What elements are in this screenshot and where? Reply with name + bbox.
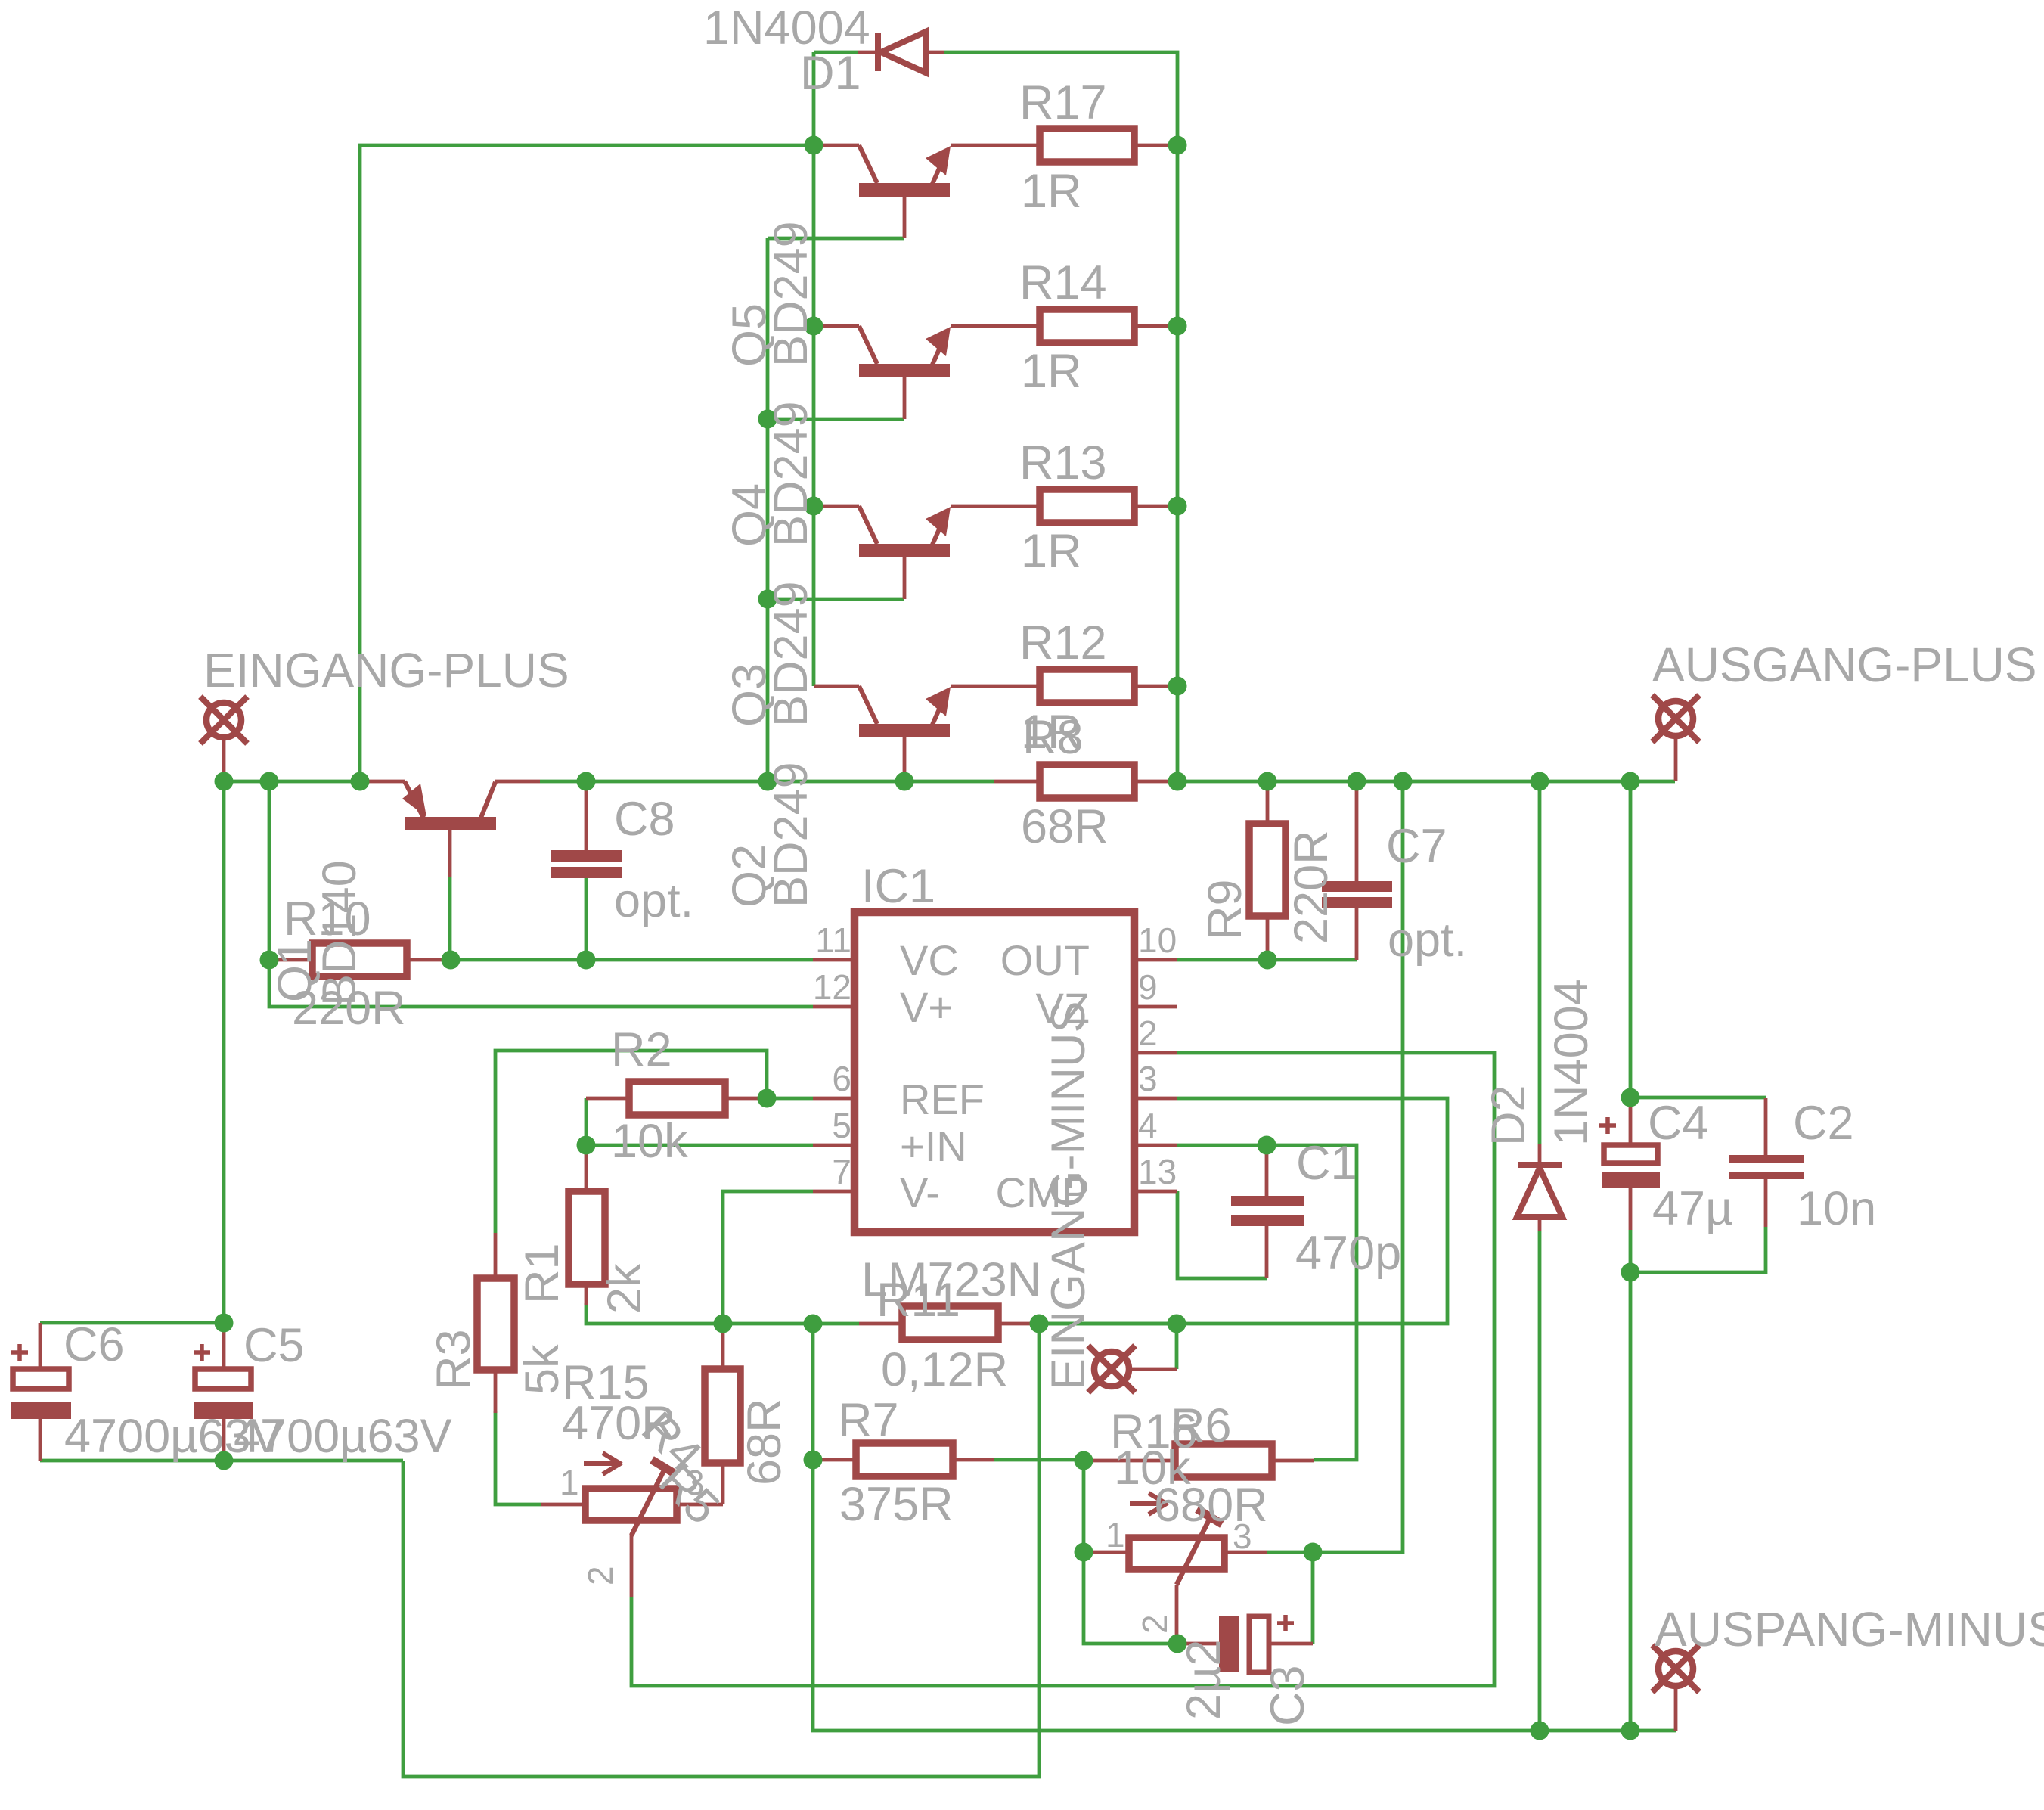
wire pot R16 pin1 down to C3 left [1084, 1552, 1177, 1644]
svg-text:+IN: +IN [900, 1122, 967, 1170]
resistor R9 220R [1249, 781, 1286, 960]
label C2 10n [1793, 1097, 1876, 1235]
svg-text:68R: 68R [738, 1398, 791, 1486]
svg-text:BD249: BD249 [765, 401, 817, 547]
wire C4 bottom node down to minus bus [1629, 1272, 1633, 1731]
svg-text:3: 3 [1233, 1517, 1252, 1556]
wire pot R16 pin3 to C3 right node [1267, 1551, 1313, 1554]
wire C8 bottom segment [585, 877, 588, 960]
wire D2 anode down to minus bus [1538, 1231, 1542, 1731]
label C7 opt [1386, 820, 1467, 967]
label R17 1R [1019, 76, 1107, 218]
wire C6 top to C5 top [40, 1321, 224, 1325]
label AUSGANG-PLUS [1652, 638, 2037, 692]
svg-text:VZ: VZ [1035, 984, 1090, 1032]
wire +IN node to pin 5 [586, 1144, 813, 1147]
transistor Q5 BD249 NPN [814, 145, 1040, 238]
resistor R13 1R emitter [1040, 489, 1177, 523]
wire R7 left node up to V- net [811, 1324, 815, 1460]
wire C2 bottom to C4 bottom [1630, 1227, 1766, 1272]
label C5 value [234, 1319, 452, 1463]
resistor R3 5k [477, 1233, 514, 1413]
svg-text:470p: 470p [1295, 1227, 1401, 1280]
wire R10 left down to V+ pin 12 [269, 960, 813, 1007]
svg-text:1: 1 [1106, 1515, 1125, 1554]
svg-text:3: 3 [685, 1463, 705, 1502]
wire C3 right node down [1311, 1552, 1315, 1644]
wire pin 3 to R11 right net [1044, 1098, 1447, 1324]
label C6 value [64, 1318, 283, 1463]
svg-text:4: 4 [1138, 1106, 1158, 1145]
transistor Q1 BD140 PNP driver [360, 781, 540, 877]
label C3 2u2 [1177, 1640, 1314, 1726]
label Q5 BD249 [723, 221, 817, 367]
wire V- net R1 bottom to R11 left [586, 1303, 859, 1324]
svg-text:C4: C4 [1648, 1097, 1709, 1150]
wire D1 anode to emitter bus top [944, 52, 1177, 781]
svg-text:375R: 375R [839, 1478, 954, 1531]
capacitor C8 opt [551, 787, 622, 878]
svg-text:9: 9 [1138, 967, 1158, 1007]
capacitor C3 2u2 electrolytic [1177, 1615, 1313, 1672]
svg-text:BD249: BD249 [765, 581, 817, 727]
label R15 470R [562, 1356, 676, 1450]
diode D2 1N4004 [1517, 1144, 1562, 1231]
svg-text:12: 12 [813, 967, 851, 1007]
wire pin 7 V- to 68R top [723, 1191, 813, 1324]
wire rail R8 right to AUSGANG-PLUS [1177, 780, 1675, 784]
svg-text:R13: R13 [1019, 436, 1107, 489]
wire C5/C6 minus bus [40, 1459, 403, 1463]
capacitor C2 10n [1729, 1098, 1804, 1227]
wire input rail EINGANG-PLUS to Q1 emitter [224, 780, 360, 784]
label R13 1R [1019, 436, 1107, 578]
wire R3 bottom to pot R4 pin1 [495, 1411, 541, 1504]
resistor R12 1R emitter [1040, 669, 1177, 703]
label R11 0,12R [876, 1274, 1008, 1396]
wire rail down to C4 top [1629, 781, 1633, 1097]
label R7 375R [838, 1394, 954, 1531]
svg-text:C7: C7 [1386, 820, 1447, 873]
label C8 opt [614, 793, 693, 927]
capacitor C4 47u electrolytic [1599, 1097, 1660, 1230]
wire R3 top to REF node [495, 1051, 767, 1233]
svg-text:R8: R8 [1022, 711, 1084, 764]
wire R7 right to R6 left [994, 1458, 1084, 1462]
terminal EINGANG-MINUS [1088, 1346, 1177, 1392]
resistor R2 10k [586, 1082, 767, 1115]
label pot R4 pin numbers [560, 1463, 705, 1585]
wire pin 4 to C1 top and down to R6 right [1177, 1145, 1357, 1460]
svg-text:2: 2 [581, 1566, 620, 1585]
svg-text:IC1: IC1 [861, 860, 935, 913]
wire rail down to D2 [1538, 781, 1542, 1144]
label R9 220R [1199, 830, 1338, 944]
svg-text:R10: R10 [284, 893, 371, 945]
wire Q1 base node to IC pin 11 VC [451, 958, 813, 962]
label IC1 pin numbers [813, 921, 1177, 1191]
resistor R10 220R base [269, 943, 451, 976]
svg-text:2µ2: 2µ2 [1177, 1640, 1230, 1720]
svg-text:R1: R1 [516, 1243, 569, 1304]
svg-text:1R: 1R [1021, 165, 1082, 218]
label R16 R6 10k 680R [1110, 1399, 1268, 1532]
label C1 470p [1295, 1137, 1401, 1280]
resistor R17 1R emitter [1040, 129, 1177, 162]
resistor R5 68R [705, 1324, 740, 1504]
label R10 220R [284, 893, 406, 1035]
label R12 1R R8 [1019, 616, 1107, 764]
svg-text:0,12R: 0,12R [881, 1343, 1008, 1396]
wire rail to R10 left [268, 781, 271, 960]
svg-text:13: 13 [1138, 1152, 1177, 1191]
wire pin 13 CMP to C1 bottom [1177, 1191, 1267, 1278]
svg-text:R7: R7 [838, 1394, 899, 1447]
svg-text:C6: C6 [64, 1318, 125, 1371]
wire ground loop C5 bus to R11 right node [403, 1324, 1039, 1777]
svg-text:R2: R2 [611, 1023, 672, 1076]
capacitor C6 4700u 63V electrolytic [11, 1323, 71, 1461]
wire OUT pin10 to R9 bottom and C7 bottom [1177, 958, 1357, 962]
svg-text:R11: R11 [876, 1274, 960, 1327]
terminal EINGANG-PLUS [200, 697, 247, 781]
label R1 2k [516, 1243, 651, 1314]
svg-text:10k: 10k [611, 1115, 688, 1168]
label LM723N [861, 1253, 1041, 1306]
wire REF node to pin 6 [767, 1097, 813, 1101]
label R4 diagonal [631, 1402, 712, 1482]
svg-text:5: 5 [832, 1106, 851, 1145]
wire EINGANG-MINUS terminal up [1175, 1324, 1179, 1369]
svg-text:R9: R9 [1199, 879, 1252, 940]
capacitor C1 470p [1231, 1145, 1304, 1278]
wire R11 right to EINGANG-MINUS node [1039, 1322, 1180, 1326]
wire rail down to pot R16 pin3 node [1313, 781, 1403, 1552]
svg-text:1: 1 [560, 1463, 579, 1502]
svg-text:opt.: opt. [614, 874, 693, 927]
svg-text:5k: 5k [516, 1344, 569, 1395]
label 1N4004 D1 [703, 2, 870, 100]
svg-text:VC: VC [900, 936, 959, 984]
svg-text:D2: D2 [1482, 1085, 1535, 1146]
label 68R of R8 [1021, 800, 1109, 853]
wire R2 left down to +IN node [585, 1098, 588, 1145]
label EINGANG-PLUS [203, 643, 569, 697]
svg-text:BD249: BD249 [765, 762, 817, 908]
wire collector bus Q5-Q3 to rail [766, 238, 770, 781]
svg-text:R14: R14 [1019, 256, 1107, 309]
wire rail Q1 collector to R8 left [540, 780, 994, 784]
label Q2 BD249 [723, 762, 817, 908]
svg-text:AUSPANG-MINUS: AUSPANG-MINUS [1655, 1602, 2044, 1656]
wire Q5 collector [768, 237, 904, 241]
transistor Q3 BD249 NPN [814, 506, 1040, 599]
label R5 diagonal [649, 1454, 729, 1534]
label IC1 [861, 860, 935, 913]
svg-text:11: 11 [815, 921, 851, 960]
svg-text:2: 2 [1135, 1614, 1174, 1634]
svg-text:BD249: BD249 [765, 221, 817, 367]
svg-text:V+: V+ [900, 983, 953, 1031]
svg-text:47µ: 47µ [1652, 1182, 1732, 1235]
wire base bus vertical [812, 52, 816, 686]
svg-text:10: 10 [1138, 921, 1177, 960]
diode D1 1N4004 [858, 32, 944, 73]
wire C4 top to C2 top [1630, 1096, 1766, 1100]
resistor R11 0.12R shunt [859, 1306, 1039, 1340]
label EINGANG-MINUS vertical [1042, 1001, 1095, 1390]
label R14 1R [1019, 256, 1107, 398]
svg-text:CMP: CMP [996, 1169, 1090, 1216]
svg-text:10n: 10n [1797, 1182, 1876, 1235]
svg-text:220R: 220R [1285, 830, 1338, 944]
svg-text:D1: D1 [800, 47, 861, 100]
svg-text:C1: C1 [1296, 1137, 1357, 1190]
label Q3 BD249 [723, 581, 817, 727]
svg-text:1N4004: 1N4004 [1545, 979, 1598, 1146]
wire pot R4 wiper net to IC pin 2 [631, 1053, 1494, 1686]
transistor Q4 BD249 NPN [814, 326, 1040, 419]
svg-text:1R: 1R [1021, 345, 1082, 398]
wire R6 left down to pot R16 pin1 [1082, 1461, 1086, 1552]
capacitor C7 opt [1322, 781, 1392, 960]
op-amp U1 IC1 LM723N box [855, 912, 1134, 1232]
svg-text:AUSGANG-PLUS: AUSGANG-PLUS [1652, 638, 2037, 692]
svg-text:opt.: opt. [1388, 914, 1467, 967]
label 68R of R5 [738, 1398, 791, 1486]
wire C4 bottom segment [1629, 1230, 1633, 1272]
svg-text:2k: 2k [598, 1263, 651, 1314]
transistor Q2 BD249 NPN [814, 686, 1040, 781]
svg-text:REF: REF [900, 1076, 985, 1123]
IC1 pin stubs [813, 960, 1177, 1191]
label R3 5k [427, 1329, 569, 1395]
svg-text:C5: C5 [243, 1319, 305, 1372]
svg-text:3: 3 [1138, 1059, 1158, 1098]
svg-text:68R: 68R [1021, 800, 1109, 853]
svg-text:1R: 1R [1021, 525, 1082, 578]
label D2 1N4004 [1482, 979, 1598, 1146]
svg-text:2: 2 [1138, 1014, 1158, 1053]
wire D1 cathode to base bus [814, 51, 858, 54]
label R2 10k [611, 1023, 688, 1168]
wire R7 left node down to minus bus [813, 1460, 1676, 1731]
wire Q3 collector [768, 598, 904, 601]
svg-text:7: 7 [832, 1152, 851, 1191]
svg-text:C8: C8 [614, 793, 675, 846]
svg-text:EINGANG-PLUS: EINGANG-PLUS [203, 643, 569, 697]
resistor R8 68R in rail [994, 765, 1177, 798]
wire Q1 base vertical [448, 877, 452, 960]
svg-text:6: 6 [832, 1059, 851, 1098]
label Q4 BD249 [723, 401, 817, 547]
svg-text:V-: V- [900, 1169, 940, 1216]
label pot R16 pin numbers [1106, 1515, 1252, 1634]
resistor R6 10k [1084, 1444, 1314, 1477]
label AUSPANG-MINUS [1655, 1602, 2044, 1656]
resistor R1 2k [569, 1145, 605, 1305]
wire base drive from rail up to base bus [360, 145, 814, 781]
terminal AUSGANG-PLUS [1652, 695, 1699, 781]
label IC1 pin names [900, 936, 1090, 1216]
resistor R7 375R [813, 1443, 994, 1476]
svg-text:R17: R17 [1019, 76, 1107, 129]
potentiometer R4 trimmer 470R [541, 1453, 723, 1597]
svg-text:220R: 220R [292, 982, 406, 1035]
resistor R14 1R emitter [1040, 309, 1177, 343]
svg-text:R12: R12 [1019, 616, 1107, 669]
potentiometer R16 trimmer 680R [1084, 1493, 1267, 1644]
terminal AUSPANG-MINUS [1652, 1645, 1699, 1731]
capacitor C5 4700u 63V electrolytic [194, 1323, 253, 1461]
svg-text:OUT: OUT [1000, 936, 1090, 984]
label C4 47u [1648, 1097, 1732, 1235]
label Q1 BD140 [268, 860, 366, 1006]
svg-text:C2: C2 [1793, 1097, 1854, 1150]
svg-text:4700µ63V: 4700µ63V [234, 1410, 452, 1463]
svg-text:C3: C3 [1261, 1665, 1314, 1726]
wire EINGANG-PLUS down to C5 [222, 781, 226, 1323]
wire Q4 collector [768, 418, 904, 421]
svg-text:R3: R3 [427, 1329, 480, 1390]
